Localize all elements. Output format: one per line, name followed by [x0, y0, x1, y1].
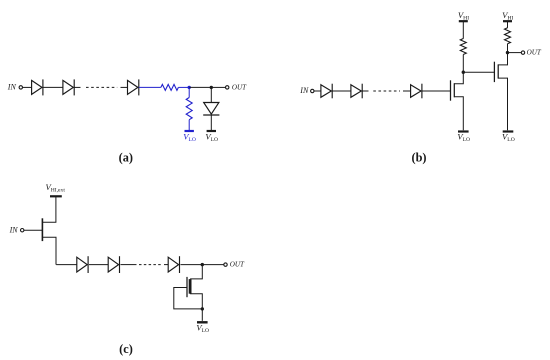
transistor M1 gate bar (b): [450, 80, 452, 100]
transistor M4 channel bar thick (c): [189, 279, 192, 294]
wire D2 cathode (a): [74, 86, 80, 88]
svg-text:OUT: OUT: [232, 84, 247, 92]
wire R1 to node (b): [462, 55, 464, 73]
diode D2 (c): [108, 256, 119, 273]
diode D1 (b): [321, 84, 332, 99]
terminal OUT (c): [224, 263, 227, 266]
svg-text:(c): (c): [119, 342, 133, 356]
wire node to OUT (b): [508, 52, 522, 54]
wire D1 to D2 (b): [332, 90, 351, 92]
dashed wire (omitted diodes) (b): [373, 90, 400, 92]
transistor M2 source lead (b): [498, 78, 507, 130]
shunt resistor (a): [186, 98, 192, 120]
VLO supply bar blue (a): [185, 130, 194, 132]
wire node to OUT (c): [202, 264, 223, 266]
node drain M1 (b): [462, 71, 465, 74]
wire VHI to R1 (b): [462, 22, 464, 39]
transistor M3 source lead (c): [42, 237, 56, 264]
diode D2 (a): [63, 79, 74, 95]
wire M1 drain to M2 gate (b): [463, 71, 494, 73]
wire D3 to M1 gate (b): [422, 90, 450, 92]
wire D1 to D2 (a): [43, 86, 63, 88]
VHI supply bar left (b): [459, 20, 468, 22]
terminal IN (c): [21, 229, 24, 232]
wire R2 to node (b): [507, 44, 509, 53]
diode D1 (a): [32, 79, 43, 95]
wire node B to clamp diode (a): [210, 87, 212, 102]
wire clamp diode to VLO (a): [210, 115, 212, 130]
load resistor R1 (b): [460, 39, 466, 55]
wire IN to M3 gate (c): [24, 229, 42, 231]
dashed wire (omitted diodes) (c): [139, 264, 162, 266]
VLO supply bar right (b): [503, 130, 514, 132]
terminal OUT (b): [521, 51, 524, 54]
svg-text:IN: IN: [7, 83, 17, 92]
VHI supply bar right (b): [503, 20, 512, 22]
node drain M2 / OUT (b): [506, 51, 509, 54]
node A (a): [188, 86, 191, 89]
wire VHIext to M3 drain (c): [42, 197, 56, 222]
wire D2 cathode (b): [362, 90, 368, 92]
series resistor (a): [161, 84, 179, 90]
VLO supply bar left (b): [458, 130, 469, 132]
wire shunt resistor to VLO (a): [188, 120, 190, 130]
diode D3 (c): [168, 256, 179, 273]
transistor M2 drain lead (b): [498, 53, 507, 65]
dashed wire (omitted diodes) (a): [86, 86, 117, 88]
wire D1 to D2 (c): [89, 264, 108, 266]
VLO supply bar (c): [197, 321, 208, 323]
wire VHI to R2 (b): [507, 22, 509, 28]
wire to D3 (c): [164, 264, 168, 266]
transistor M3 gate/channel bar (c): [41, 218, 43, 241]
transistor M2 gate bar (b): [493, 62, 495, 82]
svg-text:OUT: OUT: [230, 261, 245, 269]
svg-text:(a): (a): [119, 150, 133, 164]
wire resistor to node A (a): [178, 86, 189, 88]
svg-text:IN: IN: [9, 226, 19, 235]
transistor M1 source lead (b): [454, 97, 463, 131]
node OUT (c): [201, 263, 204, 266]
terminal IN (a): [19, 86, 22, 89]
svg-text:OUT: OUT: [527, 49, 542, 57]
node B (a): [210, 86, 213, 89]
wire to D3 (b): [403, 90, 411, 92]
wire IN to D1 (b): [314, 90, 321, 92]
wire node B to OUT (a): [211, 86, 225, 88]
diode D2 (b): [351, 84, 362, 99]
load resistor R2 (b): [505, 28, 511, 44]
terminal IN (b): [311, 89, 314, 92]
wire D3 to series resistor (a): [139, 86, 161, 88]
wire node to M4 drain (c): [190, 265, 202, 279]
VLO supply bar black (a): [207, 130, 216, 132]
wire M3 to D1 (c): [56, 264, 77, 266]
wire node A to node B (a): [189, 86, 211, 88]
transistor M4 gate-to-source loop (c): [174, 288, 203, 309]
wire node A to shunt resistor (a): [188, 87, 190, 97]
transistor M1 channel bar (b): [453, 83, 455, 97]
transistor M1 drain lead (b): [454, 72, 463, 84]
diode D1 (c): [77, 256, 88, 273]
clamp diode (a): [203, 103, 219, 116]
wire D2 cathode (c): [121, 264, 137, 266]
node M4 source (c): [201, 307, 204, 310]
svg-text:IN: IN: [299, 86, 309, 95]
VHIext supply bar (c): [50, 195, 62, 197]
terminal OUT (a): [226, 86, 229, 89]
diode D3 (b): [411, 84, 422, 99]
wire D3 to node (c): [181, 264, 203, 266]
transistor M4 source lead (c): [190, 294, 202, 321]
transistor M2 channel bar (b): [497, 64, 499, 78]
transistor M4 gate bar (c): [186, 277, 188, 297]
diode D3 (a): [128, 79, 139, 95]
wire IN to D1 (a): [23, 86, 32, 88]
svg-text:(b): (b): [411, 150, 426, 164]
wire to D3 (a): [121, 86, 128, 88]
